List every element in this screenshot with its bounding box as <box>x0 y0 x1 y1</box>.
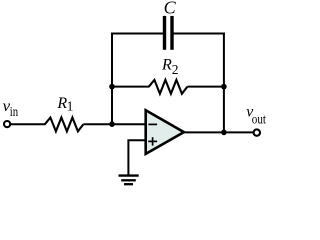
wire right rail down <box>223 33 225 134</box>
resistor R2 <box>149 80 188 94</box>
svg-text:out: out <box>252 113 266 128</box>
capacitor C left plate <box>163 16 166 50</box>
wire op-amp output to terminal <box>185 131 254 133</box>
terminal v_out circle <box>254 129 260 135</box>
svg-text:C: C <box>164 0 177 18</box>
wire input terminal to R1 <box>11 123 46 125</box>
op-amp plus sign <box>148 140 157 142</box>
wire noninverting input to ground <box>128 140 145 174</box>
svg-text:in: in <box>10 105 18 120</box>
capacitor C right plate <box>170 16 173 50</box>
svg-text:1: 1 <box>67 99 74 114</box>
svg-text:R: R <box>161 57 172 74</box>
wire R1 to inverting input (node A) <box>83 123 146 125</box>
svg-text:2: 2 <box>172 62 179 77</box>
wire R2 to right rail <box>187 86 224 88</box>
wire left rail up <box>111 33 113 126</box>
junction node A <box>109 121 115 127</box>
op-amp minus sign <box>148 123 157 125</box>
junction right R2 <box>221 84 227 90</box>
junction output node <box>221 130 227 136</box>
op-amp U1 triangle <box>146 110 184 154</box>
wire capacitor to right rail <box>174 33 225 35</box>
wire left rail to R2 <box>112 86 150 88</box>
resistor R1 <box>45 118 84 132</box>
ground <box>119 174 139 176</box>
wire top left to capacitor <box>111 33 163 35</box>
junction left R2 <box>109 84 115 90</box>
terminal v_in circle <box>4 121 10 127</box>
